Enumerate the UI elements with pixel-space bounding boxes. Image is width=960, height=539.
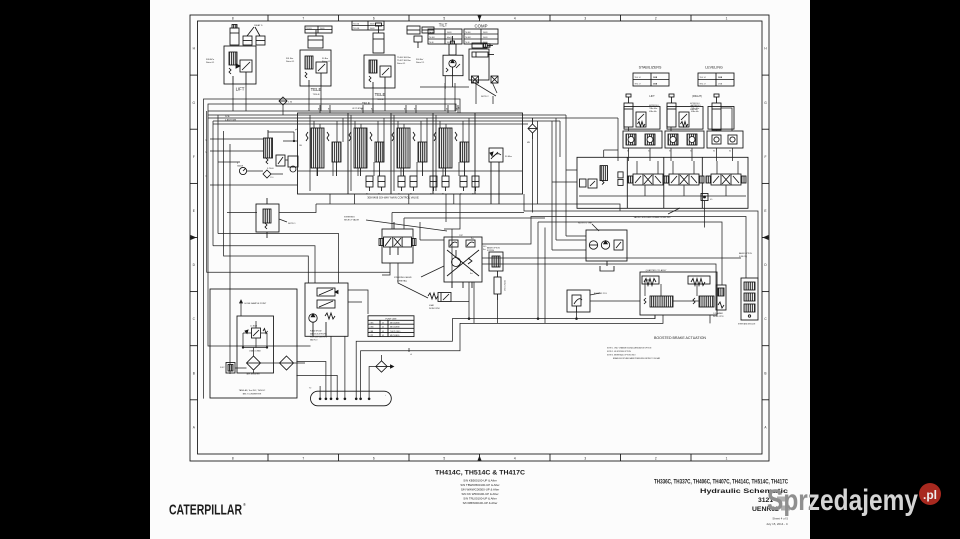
svg-text:B: B <box>193 371 195 375</box>
svg-text:HOSE SAMPLE POINT: HOSE SAMPLE POINT <box>245 302 268 305</box>
svg-text:NOTE 1: NOTE 1 <box>288 223 296 225</box>
solenoid valve leveling <box>706 174 746 185</box>
svg-text:301 Bar: 301 Bar <box>286 57 294 60</box>
port labels <box>318 108 458 111</box>
svg-text:LS 9T9 B76 B5: LS 9T9 B76 B5 <box>352 108 364 110</box>
leveling head manifold <box>707 131 743 148</box>
svg-text:A3: A3 <box>404 108 406 111</box>
pilot cluster in valve box <box>580 166 624 188</box>
main control valve bank body <box>298 113 523 194</box>
valve block LIFT <box>224 46 256 84</box>
accumulator spring left <box>642 276 659 286</box>
manifold COMP <box>469 49 489 80</box>
svg-text:Ratio 2:1: Ratio 2:1 <box>416 61 425 64</box>
svg-text:TH 40: TH 40 <box>429 42 434 44</box>
frame centering marks <box>191 16 769 461</box>
svg-text:1 BAR 0.5 BAR: 1 BAR 0.5 BAR <box>249 350 261 353</box>
leader orbital <box>421 266 444 277</box>
svg-text:1.5 B A R: 1.5 B A R <box>250 325 258 328</box>
svg-text:8: 8 <box>232 17 234 21</box>
cylinder TILT <box>449 36 456 55</box>
svg-text:6: 6 <box>373 17 375 21</box>
filter symbol mid <box>528 118 537 139</box>
svg-text:TH414C, TH514C & TH417C: TH414C, TH514C & TH417C <box>435 470 525 477</box>
svg-text:1SEAT D: 1SEAT D <box>254 24 263 27</box>
svg-text:3: 3 <box>584 17 586 21</box>
drain check filter <box>376 361 394 372</box>
stab leveling valve box <box>577 157 748 208</box>
wire orifice drop <box>704 201 706 228</box>
svg-text:TH 408: TH 408 <box>429 37 435 39</box>
svg-text:CATERPILLAR: CATERPILLAR <box>169 502 242 519</box>
svg-text:4 BAR: 4 BAR <box>429 304 435 307</box>
svg-text:NOTE TO THE: NOTE TO THE <box>578 223 592 225</box>
svg-text:1: 1 <box>726 457 728 461</box>
svg-text:NOTE 2. UB SYSTEM OPTION: NOTE 2. UB SYSTEM OPTION <box>607 351 632 353</box>
seat valves LIFT <box>243 27 265 45</box>
pump line table <box>368 316 414 337</box>
return filter <box>280 356 294 370</box>
svg-text:1: 1 <box>726 17 728 21</box>
pressure table COMP <box>464 29 498 44</box>
tank orifice line <box>242 347 268 349</box>
svg-text:TANK AS, Test WC, TH501C: TANK AS, Test WC, TH501C <box>239 389 266 392</box>
svg-text:1 CHAMBER: 1 CHAMBER <box>713 312 724 315</box>
svg-text:MB 150/B/W: MB 150/B/W <box>390 323 400 325</box>
svg-text:STEERING VALVE: STEERING VALVE <box>394 276 412 279</box>
boost shuttle valve <box>567 290 590 312</box>
svg-text:30 Max: 30 Max <box>505 156 513 158</box>
svg-text:SYSTEM: SYSTEM <box>487 250 495 252</box>
svg-text:BRAKE BOOST AND BANK PRESSURE: BRAKE BOOST AND BANK PRESSURE LIMITED TO… <box>613 357 661 360</box>
border frame inner <box>198 21 763 454</box>
svg-text:P AND SPD AV: P AND SPD AV <box>310 330 322 333</box>
bank internal passages <box>310 115 469 191</box>
svg-text:30 Bar: 30 Bar <box>322 57 328 60</box>
svg-text:STEER AND MODULE: STEER AND MODULE <box>738 323 756 326</box>
bank relief valve 30MAX <box>489 148 503 204</box>
supply bus rails <box>208 111 618 124</box>
svg-text:S/N KK W500100-UP & After: S/N KK W500100-UP & After <box>461 492 498 496</box>
svg-text:180: 180 <box>299 145 302 147</box>
svg-text:TELE: TELE <box>375 92 386 97</box>
stabilizer cylinder right <box>667 107 703 130</box>
pressure gauge <box>239 167 246 174</box>
svg-text:3: 3 <box>584 457 586 461</box>
svg-text:A1: A1 <box>318 108 320 111</box>
svg-text:TELE: TELE <box>362 102 370 106</box>
svg-text:NOTE 1. ONLY CHANGE NODSA LUB: NOTE 1. ONLY CHANGE NODSA LUBRICATION OP… <box>607 347 652 350</box>
svg-text:DCA: DCA <box>225 115 230 118</box>
svg-text:75Bar Max: 75Bar Max <box>690 105 698 108</box>
svg-text:7: 7 <box>302 17 304 21</box>
svg-text:TH 408: TH 408 <box>465 37 471 39</box>
svg-text:V2: V2 <box>713 151 715 153</box>
fitting C2 C3 <box>414 36 422 48</box>
border frame outer <box>190 15 769 461</box>
svg-text:Sheet 4 of 5: Sheet 4 of 5 <box>772 517 788 521</box>
brake spool left <box>644 296 673 307</box>
svg-text:®: ® <box>243 502 246 507</box>
leveling cylinder <box>708 107 734 130</box>
wire filter to rails <box>533 121 538 213</box>
svg-text:65Bar Min: 65Bar Min <box>649 110 657 113</box>
svg-text:BELT CONVERTER: BELT CONVERTER <box>243 394 262 396</box>
svg-text:T51 434: T51 434 <box>353 24 359 26</box>
svg-text:NOTE 2: NOTE 2 <box>481 96 489 98</box>
anti-cavitation valve pairs <box>366 176 479 191</box>
anti-cav labels <box>366 193 474 196</box>
svg-text:45: 45 <box>382 335 384 337</box>
solenoid valve stab left <box>628 174 668 185</box>
cylinder COMP lower <box>472 52 494 57</box>
check valve NOTE 1 <box>256 198 279 238</box>
svg-text:TH 40: TH 40 <box>465 42 470 44</box>
svg-text:HIGH IDLE 2200 RPM: HIGH IDLE 2200 RPM <box>310 337 327 339</box>
svg-text:F: F <box>193 155 195 159</box>
svg-text:A1: A1 <box>472 193 474 196</box>
svg-text:WORK OPTN: WORK OPTN <box>713 316 724 318</box>
cylinder COMP upper <box>472 43 493 48</box>
svg-text:A1: A1 <box>378 193 380 196</box>
svg-text:(ORBITAL): (ORBITAL) <box>397 280 407 283</box>
bank internal gallery <box>298 170 523 172</box>
pressure table TILT <box>428 29 462 44</box>
one chamber work option <box>716 285 726 310</box>
svg-text:July 15, 2014 - C: July 15, 2014 - C <box>766 522 788 526</box>
svg-text:TELE: TELE <box>311 87 322 92</box>
pressure table TELE1 <box>305 26 332 33</box>
svg-text:A1: A1 <box>442 193 444 196</box>
pump group box <box>305 283 348 336</box>
valve box feed stubs <box>552 150 618 182</box>
svg-text:MB 150/B/W: MB 150/B/W <box>390 327 400 329</box>
svg-text:T-B075 19B.5: T-B075 19B.5 <box>390 331 400 333</box>
svg-text:18.5: 18.5 <box>470 270 473 272</box>
wires actuators to bank <box>233 80 493 111</box>
svg-text:PUMP LINE: PUMP LINE <box>385 318 397 320</box>
stabilizer cylinder left <box>624 107 660 130</box>
watermark pl badge <box>919 483 941 505</box>
manifold ports <box>319 398 371 401</box>
svg-text:A1: A1 <box>398 193 400 196</box>
svg-text:(RIGHT): (RIGHT) <box>692 94 702 98</box>
leader select valve <box>366 220 447 231</box>
svg-text:WORM OPNO: WORM OPNO <box>429 308 441 310</box>
svg-text:GAUGE: GAUGE <box>237 165 244 168</box>
svg-text:30.5: 30.5 <box>483 246 486 248</box>
master cyl internal wires <box>645 280 699 301</box>
svg-text:T514-A: T514-A <box>377 98 384 101</box>
valve box internal gallery <box>579 195 746 197</box>
solenoid valve stab right <box>664 174 704 185</box>
svg-text:5: 5 <box>443 457 445 461</box>
check valve small <box>263 170 271 178</box>
svg-text:75Bar Max: 75Bar Max <box>649 107 657 110</box>
hydraulic tank enclosure <box>210 289 297 398</box>
tank breather filter <box>247 356 261 370</box>
svg-text:& ANYTIME: & ANYTIME <box>225 119 237 122</box>
front pump column <box>494 271 501 300</box>
svg-text:F: F <box>765 155 767 159</box>
steering select valve <box>379 222 416 263</box>
svg-text:E: E <box>193 209 195 213</box>
main spool section 2 <box>349 128 384 176</box>
valve block TILT <box>443 55 463 75</box>
suction strainer box <box>226 363 235 374</box>
svg-text:2: 2 <box>655 457 657 461</box>
svg-text:E: E <box>764 209 766 213</box>
pressure table TELE2 <box>352 21 384 30</box>
svg-text:STABILIZERS: STABILIZERS <box>639 66 662 70</box>
svg-text:T:0: T:0 <box>309 387 311 389</box>
svg-text:SELECT VALVE: SELECT VALVE <box>344 219 360 222</box>
svg-text:S/N TRL00100-UP & After: S/N TRL00100-UP & After <box>463 497 497 501</box>
stabilizer head manifold left <box>623 131 662 148</box>
sample point arrow <box>240 300 243 316</box>
svg-text:6: 6 <box>373 457 375 461</box>
svg-text:TILT: TILT <box>439 23 448 28</box>
routing rails mid-right <box>213 194 758 323</box>
tank inner box <box>237 316 274 373</box>
svg-text:7: 7 <box>302 457 304 461</box>
pressure tables mid <box>407 26 434 34</box>
tank stub under pump <box>600 261 614 271</box>
svg-text:TH 4 14: TH 4 14 <box>700 77 706 79</box>
svg-text:gh2: gh2 <box>295 129 298 131</box>
border zone numbers <box>232 17 728 461</box>
serial number list <box>460 478 499 505</box>
border zone tick marks top/bottom <box>268 15 691 461</box>
svg-text:T1400 300 Bar: T1400 300 Bar <box>397 56 411 59</box>
pilot orifice box <box>701 194 708 201</box>
pilot accumulator <box>288 156 298 172</box>
pilot pressure reducing spool <box>264 130 273 164</box>
quick couplers COMP <box>472 76 499 83</box>
svg-text:QUARTER CYL ASSY: QUARTER CYL ASSY <box>646 269 667 272</box>
white scanned page <box>150 0 810 539</box>
svg-text:FRONT PUMP: FRONT PUMP <box>503 280 505 292</box>
cylinder TELE2 <box>373 23 384 53</box>
svg-text:90Bar Min: 90Bar Min <box>690 108 698 111</box>
leader NOTE 1 <box>279 219 287 222</box>
svg-text:.pl: .pl <box>923 488 937 502</box>
svg-text:300 Ba/: 300 Ba/ <box>416 59 424 61</box>
svg-text:Ratio 4:1: Ratio 4:1 <box>286 60 295 63</box>
svg-text:Ratio 4:1: Ratio 4:1 <box>397 62 406 65</box>
svg-text:STEERING: STEERING <box>344 217 355 219</box>
svg-text:5: 5 <box>443 17 445 21</box>
svg-text:602768 14-3: 602768 14-3 <box>649 105 659 107</box>
svg-text:NOTE 3. NEVER ADD OPTION ONLY: NOTE 3. NEVER ADD OPTION ONLY <box>607 354 637 357</box>
svg-text:A1: A1 <box>410 193 412 196</box>
svg-text:LEVELING: LEVELING <box>705 66 723 70</box>
svg-text:(VARIOUS) SPECIFIC: (VARIOUS) SPECIFIC <box>310 333 328 336</box>
svg-text:45: 45 <box>382 323 384 325</box>
leader caption <box>668 208 680 214</box>
svg-text:T51 436: T51 436 <box>353 28 359 30</box>
svg-text:TH 4 17: TH 4 17 <box>700 83 706 85</box>
steer brake module <box>741 278 758 320</box>
svg-text:S-T5H-B: S-T5H-B <box>267 168 274 170</box>
svg-text:0.5: 0.5 <box>710 199 712 201</box>
svg-text:B1: B1 <box>328 109 330 111</box>
svg-text:B: B <box>764 371 766 375</box>
svg-text:607938 14-3: 607938 14-3 <box>690 103 700 105</box>
svg-text:3016kPa: 3016kPa <box>206 59 215 61</box>
wire filter drop <box>282 105 284 115</box>
cylinder TELE1 <box>308 30 323 48</box>
svg-text:TH 4 14: TH 4 14 <box>635 77 641 79</box>
svg-text:308-9408 SIX-WAY MAIN CONTROL: 308-9408 SIX-WAY MAIN CONTROL VALVE <box>367 196 419 200</box>
filter symbol top left <box>279 97 287 105</box>
main spool section 4 <box>434 128 469 176</box>
manifold feed wires <box>296 315 663 398</box>
wires bank work ports down <box>330 194 454 204</box>
harness routing rails left <box>204 99 461 399</box>
svg-text:COMP: COMP <box>475 24 488 29</box>
svg-text:2187: 2187 <box>459 235 463 237</box>
svg-text:A4: A4 <box>446 108 448 111</box>
restrictor 4 bar work option <box>428 293 451 302</box>
brake spool right <box>693 296 714 307</box>
svg-text:TH 406: TH 406 <box>429 32 435 34</box>
stems cylinders to manifolds <box>560 118 738 196</box>
svg-text:8: 8 <box>232 457 234 461</box>
border zone letters <box>193 47 768 430</box>
accumulator spring right <box>688 276 710 286</box>
stabilizers table <box>633 73 669 86</box>
stabilizer head manifold right <box>665 131 704 148</box>
svg-text:LIFT: LIFT <box>649 94 655 98</box>
svg-text:A1: A1 <box>430 193 432 196</box>
pilot wires <box>210 132 298 185</box>
return manifold stadium <box>311 391 392 406</box>
svg-text:A1: A1 <box>366 193 368 196</box>
master cylinder assembly box <box>640 272 717 315</box>
svg-text:45: 45 <box>382 331 384 333</box>
tank internal wires <box>230 291 305 374</box>
svg-text:S/N KB500100-UP & After: S/N KB500100-UP & After <box>463 478 497 482</box>
valve block TELE1 <box>300 50 331 86</box>
svg-text:1 10: 1 10 <box>270 177 273 179</box>
svg-text:4: 4 <box>514 457 516 461</box>
leader lines NOTE 2 <box>473 82 497 96</box>
brake option block <box>489 252 503 271</box>
svg-text:S/N TBW00500100-UP & After: S/N TBW00500100-UP & After <box>460 483 499 487</box>
svg-text:T514 B: T514 B <box>306 28 312 30</box>
work port stubs <box>320 105 458 113</box>
main spool section 3 <box>392 128 427 176</box>
svg-text:S/N WWWC00500-UP & After: S/N WWWC00500-UP & After <box>461 488 499 492</box>
svg-text:S/N RBW00100-UP & After: S/N RBW00100-UP & After <box>463 501 498 505</box>
valve block TELE2 <box>364 55 395 88</box>
svg-text:MB T/0/B/20: MB T/0/B/20 <box>390 335 399 337</box>
svg-text:2: 2 <box>655 17 657 21</box>
svg-text:BOOSTED BRAKE ACTUATION: BOOSTED BRAKE ACTUATION <box>654 336 706 340</box>
wires to brake pump <box>552 115 586 250</box>
svg-text:T1407 300 Bar: T1407 300 Bar <box>397 59 411 62</box>
steering metering valve orbital <box>444 237 482 288</box>
border zone tick marks left/right <box>190 75 769 400</box>
svg-text:TH 4 17: TH 4 17 <box>635 83 641 85</box>
svg-text:V2: V2 <box>729 151 731 153</box>
brake pump box <box>586 230 627 261</box>
cylinder LIFT rod-end <box>230 25 239 46</box>
leveling table <box>698 73 734 86</box>
wire TILT drop <box>420 76 469 89</box>
svg-text:Ratio 4:1: Ratio 4:1 <box>206 61 215 64</box>
pilot solenoid valve <box>276 155 285 166</box>
svg-text:B3: B3 <box>414 109 416 111</box>
svg-text:Ratio 4:1: Ratio 4:1 <box>322 60 331 63</box>
svg-text:4: 4 <box>514 17 516 21</box>
main spool section 1 <box>306 128 341 176</box>
svg-text:LIFT: LIFT <box>236 87 245 92</box>
tank relief valve <box>245 328 268 338</box>
svg-text:T514-B: T514-B <box>313 94 320 96</box>
svg-text:MAX FLO: MAX FLO <box>310 339 318 342</box>
svg-text:A4: A4 <box>458 107 460 110</box>
svg-text:TH 406: TH 406 <box>465 32 471 34</box>
svg-text:45: 45 <box>382 327 384 329</box>
